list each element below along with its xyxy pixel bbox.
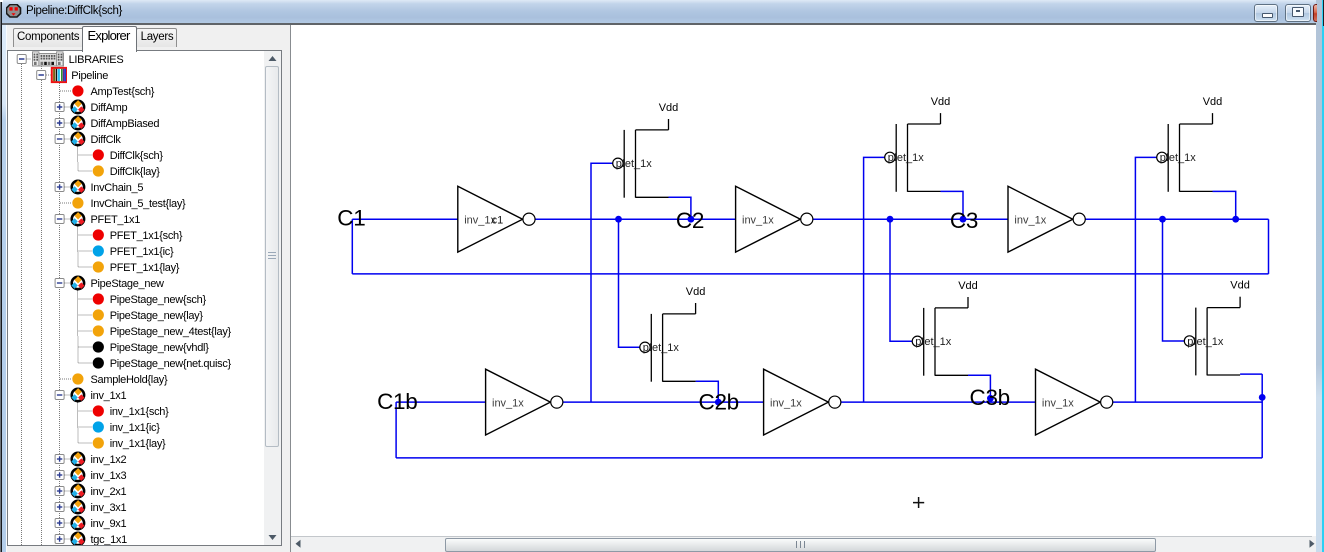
svg-text:pfet_1x: pfet_1x [616,158,653,170]
wire P3 drain to net C3 [941,191,964,219]
wire U2 output to U3 input (net C3) [813,218,1008,220]
junction C2 / P1 drain [688,216,695,223]
power Vdd for P4 [1203,96,1223,124]
op-amp style inverter U6 (inv_1x) [1036,369,1113,435]
power Vdd for P3 [931,96,951,124]
svg-text:Vdd: Vdd [686,286,706,298]
wire P2 drain to net C2b [696,381,719,402]
svg-text:C2: C2 [676,208,704,233]
wire U5 output to U6 input (net C3b) [841,401,1036,403]
transistor P4 (pfet_1x) [1157,124,1213,192]
svg-text:Vdd: Vdd [1203,96,1223,108]
svg-text:pfet_1x: pfet_1x [915,336,952,348]
junction C3 / P3 drain [960,216,967,223]
op-amp style inverter U3 (inv_1x) [1008,186,1085,252]
svg-text:inv_1x: inv_1x [1014,214,1046,226]
transistor P1 (pfet_1x) [613,130,669,198]
wire P4 gate to bottom output net [1135,157,1156,402]
wire U3 output to right feedback corner [1085,218,1268,220]
junction top output / P4 drain [1232,216,1239,223]
wire C1 vertical stub [351,219,353,274]
wire U4 output to U5 input (net C2b) [563,401,764,403]
wire bottom feedback horizontal [396,457,1262,459]
svg-text:C3: C3 [950,208,978,233]
power Vdd for P5 [958,280,978,308]
op-amp style inverter U1 (inv_1x) [458,186,535,252]
junction C2 / P2 gate riser [615,216,622,223]
svg-text:Vdd: Vdd [659,102,679,114]
svg-text:c1: c1 [492,214,504,226]
svg-text:pfet_1x: pfet_1x [1160,152,1197,164]
wire C1b to U4 input [396,401,486,403]
power Vdd for P2 [686,286,706,314]
svg-text:inv_1x: inv_1x [742,214,774,226]
transistor P5 (pfet_1x) [912,308,968,376]
wire feedback horizontal to C1 [352,273,1268,275]
cursor crosshair [913,497,924,508]
wire P6 drain to right end [1240,373,1262,375]
wire P3 gate to net C3b [864,157,885,402]
svg-text:inv_1x: inv_1x [492,397,524,409]
wire P1 drain to net C2 [669,197,691,219]
transistor P6 (pfet_1x) [1184,308,1240,376]
svg-text:Vdd: Vdd [958,280,978,292]
wire U1 output to U2 input (net C2) [535,218,736,220]
wire C1b vertical stub [395,402,397,458]
wire right end vertical to bottom feedback [1261,374,1263,458]
wire top output net down to P6 gate [1163,219,1185,341]
svg-text:C3b: C3b [970,385,1010,410]
svg-text:pfet_1x: pfet_1x [643,342,680,354]
op-amp style inverter U4 (inv_1x) [486,369,563,435]
svg-text:C1b: C1b [377,389,417,414]
junction C3 / P5 gate riser [887,216,894,223]
wire feedback right vertical [1268,219,1270,274]
power Vdd for P1 [659,102,679,130]
power Vdd for P6 [1230,280,1250,308]
svg-text:C2b: C2b [699,389,739,414]
junction right end / P6 drain [1259,394,1266,401]
svg-text:Vdd: Vdd [1230,280,1250,292]
svg-text:pfet_1x: pfet_1x [1187,336,1224,348]
svg-text:inv_1x: inv_1x [1042,397,1074,409]
junction C2b / P2 drain [715,399,722,406]
wire U6 output to right end [1113,401,1262,403]
wire P4 drain to top output net [1213,191,1236,219]
svg-text:C1: C1 [337,206,365,231]
op-amp style inverter U5 (inv_1x) [764,369,841,435]
transistor P3 (pfet_1x) [885,124,941,192]
svg-text:Vdd: Vdd [931,96,951,108]
wire P5 drain to net C3b [968,375,990,402]
transistor P2 (pfet_1x) [640,314,696,382]
wire C1 to U1 input [352,218,458,220]
junction top output / P6 gate riser [1159,216,1166,223]
svg-text:inv_1x: inv_1x [770,397,802,409]
junction C3b / P5 drain [987,395,994,402]
wire net C3 down to P5 gate [890,219,912,341]
wire net C2 down to P2 gate [619,219,640,347]
wire P1 gate to net C2b [591,163,613,402]
op-amp style inverter U2 (inv_1x) [736,186,813,252]
svg-text:pfet_1x: pfet_1x [888,152,925,164]
